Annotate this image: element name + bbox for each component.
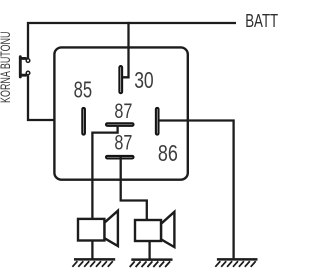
- svg-text:KORNA BUTONU: KORNA BUTONU: [0, 32, 13, 104]
- svg-text:85: 85: [74, 77, 93, 103]
- wire pin 86 to ground: [159, 121, 233, 259]
- svg-text:BATT: BATT: [245, 10, 278, 31]
- wire BATT down to pin 30: [123, 22, 129, 77]
- pin 85 terminal bar: [82, 108, 85, 135]
- pin 86 terminal bar: [156, 108, 159, 135]
- svg-text:30: 30: [134, 67, 154, 93]
- ground (right, relay coil): [215, 259, 257, 266]
- svg-text:87: 87: [114, 100, 132, 123]
- pin 30 terminal bar: [119, 66, 122, 93]
- relay K1 body: [54, 47, 187, 179]
- ground (left horn): [72, 259, 115, 266]
- wire BATT feed line: [28, 23, 236, 58]
- ground (right horn): [130, 260, 173, 267]
- svg-text:86: 86: [158, 140, 178, 166]
- wire pin 87 top to left horn: [92, 125, 117, 219]
- switch S1 horn button: [20, 57, 30, 77]
- horn H1 (left): [78, 211, 118, 246]
- wire right horn to ground: [148, 241, 150, 259]
- pin 87 terminal bar (bottom): [106, 156, 134, 159]
- pin 87 terminal bar (top): [106, 123, 134, 126]
- svg-text:87: 87: [114, 131, 132, 154]
- wire pin 87 bottom to right horn: [121, 157, 147, 220]
- wire left horn to ground: [91, 241, 93, 259]
- horn H2 (right): [135, 212, 174, 247]
- wire button to pin 85: [28, 75, 81, 120]
